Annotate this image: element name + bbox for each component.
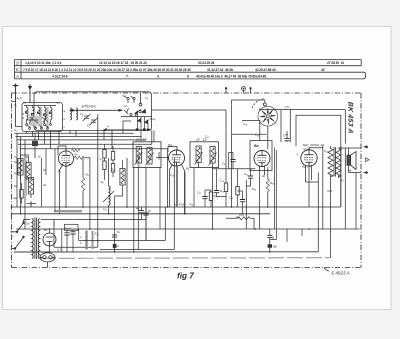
svg-text:10 4700: 10 4700 [174, 203, 185, 207]
wire antenna down [16, 101, 23, 127]
capacitor C41 dark [268, 244, 272, 247]
svg-text:2a: 2a [42, 168, 47, 172]
capacitor C26 [240, 200, 245, 202]
svg-text:C₂₁: C₂₁ [222, 162, 226, 166]
border crossing dots [11, 206, 13, 232]
tube B4 (detector/AF) [169, 150, 185, 166]
external connection marks [364, 146, 370, 174]
chassis border (dash-dot) [12, 93, 362, 268]
wires coil stack [21, 155, 37, 207]
svg-text:E: E [16, 67, 19, 72]
wire grid cap B1 [140, 93, 142, 103]
switch arm triangles [134, 109, 149, 125]
switch wafer dark row [25, 111, 51, 116]
resistor R2b zig [72, 149, 80, 152]
svg-text:23 24 25 26: 23 24 25 26 [198, 61, 215, 65]
grid cap curve [252, 99, 265, 109]
wire speaker terminals [345, 148, 361, 229]
wire B6 pins [306, 165, 319, 207]
svg-text:4a: 4a [26, 155, 30, 159]
capacitor C22 [143, 213, 148, 215]
resistor R6 [103, 161, 106, 170]
svg-text:a: a [272, 236, 274, 240]
stack labels [13, 160, 18, 200]
svg-text:10ºΩ/mc: 10ºΩ/mc [81, 104, 96, 109]
wire IF2 drops [134, 142, 152, 252]
bottom bus line [14, 251, 318, 253]
tube B4 cathode grey [176, 167, 178, 206]
svg-text:Ba: Ba [254, 144, 259, 148]
resistor R19 [236, 187, 239, 196]
annotation 10kOhm arrow [69, 109, 123, 112]
wire B5 double rail [270, 148, 277, 240]
IF transformer 3 box [190, 142, 219, 168]
coil former AVC [120, 169, 125, 186]
svg-text:27 28 30 31: 27 28 30 31 [327, 61, 344, 65]
svg-text:8: 8 [187, 74, 189, 78]
svg-text:aa: aa [273, 245, 277, 249]
dial lamps [40, 253, 55, 262]
svg-text:C₁: C₁ [14, 103, 17, 107]
resistor R5 [103, 150, 106, 159]
bus y213.8 [12, 213, 271, 215]
resistor R16 zig [238, 217, 251, 220]
switch linkage strokes [26, 114, 48, 124]
nested wire loop outer [290, 110, 345, 144]
wires under input box [15, 130, 168, 229]
resistor R7 [111, 152, 114, 161]
svg-text:C₁₁: C₁₁ [100, 157, 104, 161]
wire C15 [114, 239, 116, 252]
svg-text:A: A [15, 74, 19, 79]
bottom faint line [40, 257, 330, 259]
wire R20 [210, 190, 212, 207]
oscillator switch cluster [121, 108, 152, 117]
scattered component labels [14, 94, 344, 252]
capacitor C27 [202, 197, 207, 199]
capacitor C60 [64, 233, 69, 235]
svg-text:Sa: Sa [26, 222, 30, 226]
voltage selector switch [12, 236, 25, 249]
antenna coil shield box [22, 103, 63, 132]
wire B4 pins [170, 165, 185, 214]
wire B6 anode [309, 146, 323, 175]
IF2 coil former a [136, 147, 141, 164]
svg-text:3a: 3a [14, 196, 18, 200]
oscillator switch contacts [124, 96, 135, 103]
IF3 coil former a [196, 146, 201, 163]
svg-text:50000: 50000 [157, 152, 161, 160]
wire B1 bottom drops [138, 117, 149, 142]
svg-text:1,4,10 9 10 11 16a 1 2 3 4: 1,4,10 9 10 11 16a 1 2 3 4 [25, 61, 62, 65]
wire R15 [225, 169, 227, 207]
IF1 coil former a [18, 159, 23, 176]
tuning tube B1 top cap [139, 103, 142, 106]
wire extra verticals [42, 130, 303, 252]
wire AE to border [12, 101, 16, 103]
output transformer T2 primary [328, 149, 333, 178]
wire C25 [217, 169, 227, 197]
pot wiper arrow [103, 191, 114, 202]
tube B5 (AF amplifier) [254, 151, 270, 167]
wire C40 [269, 229, 271, 252]
wire B4 anode up [168, 147, 177, 153]
IF coil stack grey underlay [25, 160, 27, 196]
capacitor C33 [230, 160, 235, 162]
svg-text:6,3: 6,3 [57, 248, 61, 252]
IF transformer 2 box [133, 142, 161, 168]
svg-text:S₁: S₁ [14, 128, 17, 132]
capacitor C14 [112, 235, 117, 237]
wire B3 anode out [259, 109, 290, 111]
mains transformer T1 secondary [38, 219, 39, 259]
svg-text:7.: 7. [126, 74, 129, 78]
bus y240.5 [98, 207, 166, 241]
wire det [242, 121, 260, 141]
tube B5 screen box [250, 141, 272, 171]
electrolytic C63 grey [92, 231, 94, 249]
IF3 trimmer arrows [195, 152, 217, 166]
svg-text:C₃₁: C₃₁ [244, 172, 248, 176]
bus y219.5 [58, 219, 146, 221]
earth terminal AE [28, 84, 32, 103]
grey coil underlay [41, 107, 48, 129]
table right end bracket [361, 60, 366, 79]
svg-text:2a: 2a [13, 184, 18, 188]
wire B2 anode [58, 146, 66, 155]
wire C55 [281, 110, 287, 142]
border terminal lamp [225, 87, 251, 94]
oscillator coil shield box [34, 92, 152, 131]
svg-text:S: S [16, 61, 19, 66]
svg-text:4Z: 4Z [321, 68, 325, 72]
wire ladder left [15, 133, 168, 149]
wire feedback drops [318, 148, 345, 252]
wire screen feed [84, 158, 90, 229]
svg-text:12 13 14 15 16 17 18 19 20 2: 12 13 14 15 16 17 18 19 20 21 22 [99, 61, 147, 65]
svg-text:BK 453 A: BK 453 A [347, 101, 354, 134]
volume pot coil [109, 186, 111, 205]
tube B2 pins [62, 164, 71, 168]
wire lamp down [47, 262, 49, 268]
T2 core [334, 147, 335, 177]
antenna coil L2 [33, 108, 35, 120]
svg-text:~: ~ [12, 235, 14, 239]
svg-text:Ta: Ta [14, 160, 17, 164]
wire verticals long left [17, 133, 25, 229]
leader line for S4923A [324, 268, 329, 272]
wire C26 [238, 191, 243, 214]
svg-text:42.29.47.68 40.: 42.29.47.68 40. [255, 68, 277, 72]
wire rectifier [49, 229, 51, 252]
wire C31 [246, 169, 250, 229]
padder trimmer C6 [83, 114, 91, 121]
grey bus segment [54, 210, 82, 212]
capacitor C21 [139, 211, 144, 213]
IF3 coil former b [210, 147, 215, 164]
svg-text:3a: 3a [43, 183, 47, 187]
svg-text:31.32.37.34 36.38.: 31.32.37.34 36.38. [207, 68, 234, 72]
svg-text:7 9 8 10 17 18 13 14 6 16 1 2: 7 9 8 10 17 18 13 14 6 16 1 2 3 4 11 12 … [23, 68, 191, 72]
svg-text:1b: 1b [148, 209, 152, 213]
svg-text:4a: 4a [136, 207, 140, 211]
electrolytic C62 grey [85, 231, 87, 250]
wire osc feedback with arrow [104, 129, 152, 131]
IF1 coil former c [28, 178, 33, 195]
wire B1 side taps [123, 119, 152, 130]
elco block label [65, 224, 79, 230]
wire R5 R6 [105, 144, 123, 241]
mains switch [12, 220, 25, 233]
wire drops from coil box [27, 130, 124, 148]
svg-text:1a: 1a [38, 155, 42, 159]
antenna coil L1 [27, 108, 29, 120]
table frame [15, 60, 365, 79]
resistor R9 [111, 164, 114, 173]
screen resistor R2 [75, 156, 85, 159]
resistor R3 vertical [81, 178, 84, 191]
capacitor chain C40 [267, 235, 272, 237]
wire B2 cathode [60, 165, 67, 214]
oscillator coil L6 [70, 108, 72, 120]
svg-text:40,41a 46 48 14a 3 46,17 49: 40,41a 46 48 14a 3 46,17 49 28 63a 78 80… [196, 74, 267, 78]
svg-text:4b: 4b [262, 174, 266, 178]
wire B3 top cap feed [232, 100, 265, 134]
wire misc verticals [127, 130, 323, 240]
IF2 trimmer arrow [135, 152, 154, 166]
svg-text:R₁: R₁ [125, 104, 128, 108]
cross mark [30, 201, 32, 206]
nested wire loop inner [296, 115, 341, 207]
antenna coil L4 [45, 108, 47, 120]
svg-text:2: 2 [79, 241, 82, 245]
wire AVC bus [54, 114, 98, 247]
wire B3 down [267, 126, 269, 149]
bus y249.5 [100, 158, 174, 250]
IF1 coil former b [26, 163, 31, 180]
wire T2 [331, 146, 346, 258]
bus y207 [12, 146, 341, 207]
tube B6 (output pentode) [301, 150, 317, 166]
band switch contacts [22, 106, 56, 130]
wire T1 top [24, 219, 59, 221]
capacitor C31 [248, 176, 253, 178]
svg-text:A E: A E [16, 97, 23, 101]
svg-text:1a: 1a [14, 171, 18, 175]
svg-text:8μF 7000Ω 4Ω: 8μF 7000Ω 4Ω [303, 143, 325, 147]
svg-text:S 4923 A: S 4923 A [331, 271, 350, 276]
wire osc coupling [232, 134, 267, 207]
resistor R18 vertical [266, 179, 269, 192]
contact blob row [136, 128, 150, 131]
wire R3 [82, 158, 84, 207]
IF2 coil former b [147, 148, 152, 165]
tube B2 (IF amplifier) [58, 151, 73, 166]
capacitor C25 [214, 191, 219, 193]
oscillator coil L7 [76, 108, 78, 120]
svg-text:9.: 9. [157, 74, 160, 78]
output transformer T2 secondary [336, 149, 341, 178]
wire R16 [226, 218, 254, 229]
switch plate grey patch [29, 116, 41, 126]
tube B3 top cap [263, 103, 266, 106]
svg-text:4 19,2 24-6: 4 19,2 24-6 [52, 74, 68, 78]
tube B3 (output pentode top view) [258, 106, 278, 126]
wire IF3 drops [194, 163, 213, 230]
svg-text:C⁵⁵: C⁵⁵ [283, 134, 289, 138]
antenna coil L5 [51, 108, 53, 120]
wire C33 [229, 153, 234, 169]
wire C27 [205, 190, 211, 207]
wire elco [67, 230, 73, 252]
wire pot [108, 158, 110, 214]
svg-text:a c: a c [122, 94, 126, 98]
capacitor C55 [284, 139, 289, 141]
capacitor C15 dark [113, 244, 117, 248]
bus y229 [16, 228, 360, 230]
svg-text:Ta: Ta [117, 230, 120, 234]
wire grid line B3 [152, 110, 227, 169]
svg-text:Ba: Ba [168, 144, 172, 148]
T1 core [35, 218, 37, 260]
resistor R12 [20, 190, 23, 199]
wire blob leads [34, 133, 36, 158]
svg-text:1F 1F: 1F 1F [136, 138, 148, 142]
antenna terminal A [13, 83, 19, 101]
wire IF2 to B4 grid [156, 157, 169, 159]
resistor R20 [209, 192, 212, 201]
rectifier tube B7 [43, 233, 56, 246]
svg-text:C⁵⁴: C⁵⁴ [285, 106, 291, 110]
wire B5 pins [260, 166, 265, 230]
antenna coil L3 [39, 108, 41, 120]
trimmer C7 [90, 118, 98, 125]
mains transformer T1 primary [32, 219, 33, 259]
dark component blob [32, 141, 38, 146]
capacitor C61 [70, 232, 75, 234]
wire R18 [267, 167, 269, 207]
resistor R15 [224, 183, 227, 192]
wire earth down [29, 102, 31, 105]
wire R19 [237, 169, 239, 207]
loudspeaker [347, 152, 356, 170]
svg-text:47a: 47a [327, 189, 332, 193]
svg-text:0,1μF 30000: 0,1μF 30000 [137, 153, 141, 169]
wire AF bus [213, 168, 256, 170]
svg-text:fig 7: fig 7 [177, 272, 194, 281]
